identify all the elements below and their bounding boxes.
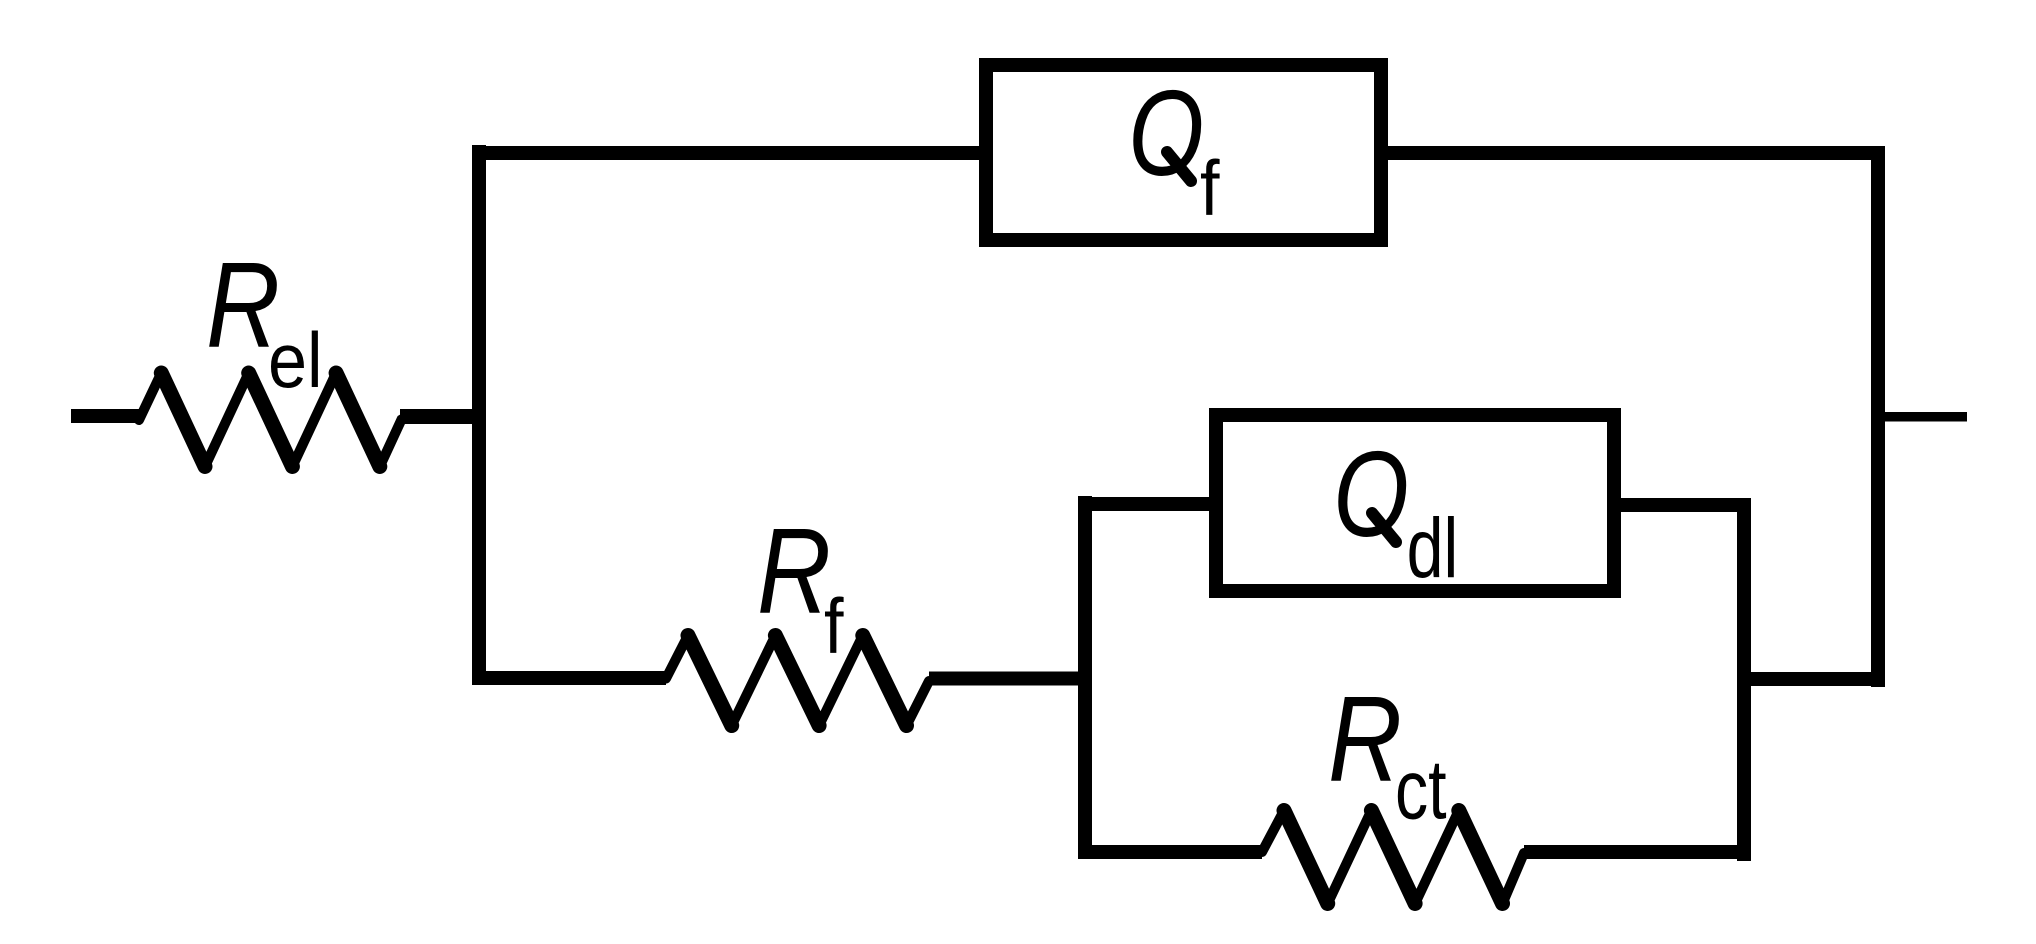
wire inner group to right vertical bbox=[1751, 672, 1885, 686]
wire bottom branch left segment bbox=[472, 671, 666, 685]
label Q_f Q tail bbox=[1167, 152, 1191, 181]
svg-text:R: R bbox=[1328, 671, 1402, 807]
resistor R_el zigzag bbox=[139, 373, 402, 467]
wire top rail right segment bbox=[1388, 146, 1885, 160]
right terminal wire bbox=[1885, 412, 1967, 422]
resistor R_f zigzag bbox=[666, 636, 929, 726]
wire inner top rail right segment bbox=[1614, 498, 1751, 512]
CPE Q_f box bbox=[986, 65, 1381, 240]
svg-text:ct: ct bbox=[1395, 743, 1447, 837]
wire inner top rail left segment bbox=[1078, 497, 1216, 511]
wire R_el to left node bbox=[400, 409, 486, 424]
wire R_f to inner parallel group bbox=[929, 672, 1092, 686]
svg-text:R: R bbox=[757, 503, 831, 639]
label Q_dl Q tail bbox=[1372, 513, 1396, 542]
left terminal wire bbox=[71, 409, 139, 423]
svg-text:dl: dl bbox=[1407, 502, 1459, 596]
svg-text:el: el bbox=[268, 317, 323, 404]
CPE Q_dl box bbox=[1216, 415, 1614, 591]
wire top rail left segment bbox=[472, 146, 979, 160]
wire left vertical of inner parallel group bbox=[1078, 496, 1092, 858]
resistor R_ct zigzag bbox=[1262, 811, 1524, 904]
wire right vertical of inner parallel group bbox=[1737, 498, 1751, 861]
svg-text:f: f bbox=[824, 583, 844, 670]
wire inner bottom rail left segment bbox=[1078, 845, 1262, 859]
wire right vertical of outer parallel branch bbox=[1871, 146, 1885, 687]
wire left vertical of outer parallel branch bbox=[472, 145, 486, 685]
svg-text:f: f bbox=[1200, 145, 1220, 232]
wire inner bottom rail right segment bbox=[1524, 845, 1751, 859]
